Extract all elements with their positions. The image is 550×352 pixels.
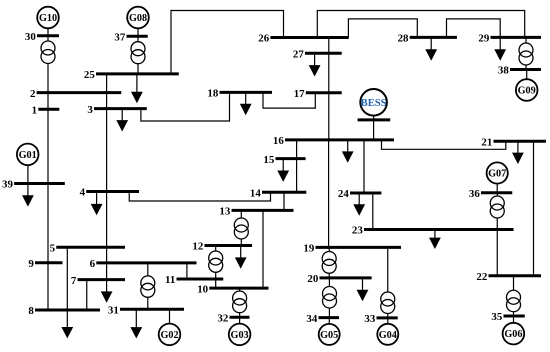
svg-text:10: 10 xyxy=(197,283,208,295)
svg-text:G09: G09 xyxy=(518,86,536,97)
svg-text:34: 34 xyxy=(306,313,317,325)
svg-text:25: 25 xyxy=(84,69,95,81)
svg-text:19: 19 xyxy=(303,243,314,255)
svg-text:18: 18 xyxy=(207,88,218,100)
svg-text:26: 26 xyxy=(258,33,269,45)
svg-text:17: 17 xyxy=(294,88,305,100)
svg-text:G05: G05 xyxy=(320,330,338,341)
svg-text:9: 9 xyxy=(28,258,34,270)
svg-text:G02: G02 xyxy=(160,330,178,341)
svg-text:27: 27 xyxy=(293,48,304,60)
svg-text:5: 5 xyxy=(50,243,56,255)
svg-text:4: 4 xyxy=(80,187,86,199)
svg-text:16: 16 xyxy=(273,135,284,147)
svg-text:20: 20 xyxy=(307,273,318,285)
svg-text:BESS: BESS xyxy=(361,98,387,109)
svg-text:15: 15 xyxy=(263,154,274,166)
svg-text:G07: G07 xyxy=(488,169,506,180)
svg-text:30: 30 xyxy=(25,31,36,43)
svg-text:28: 28 xyxy=(398,33,409,45)
svg-text:2: 2 xyxy=(30,88,35,100)
svg-text:36: 36 xyxy=(469,188,480,200)
svg-text:32: 32 xyxy=(217,312,228,324)
svg-text:G08: G08 xyxy=(129,13,147,24)
svg-text:22: 22 xyxy=(476,271,487,283)
svg-text:29: 29 xyxy=(478,33,489,45)
svg-text:1: 1 xyxy=(32,105,37,117)
svg-text:37: 37 xyxy=(114,31,125,43)
svg-text:21: 21 xyxy=(481,136,492,148)
svg-text:11: 11 xyxy=(165,274,175,286)
svg-text:13: 13 xyxy=(219,206,230,218)
svg-text:G01: G01 xyxy=(19,150,37,161)
svg-text:24: 24 xyxy=(338,188,349,200)
svg-text:14: 14 xyxy=(250,187,261,199)
svg-text:12: 12 xyxy=(192,241,203,253)
svg-text:7: 7 xyxy=(71,275,77,287)
svg-text:8: 8 xyxy=(28,305,34,317)
svg-text:G06: G06 xyxy=(504,329,522,340)
svg-text:3: 3 xyxy=(87,104,93,116)
svg-text:39: 39 xyxy=(2,179,13,191)
svg-text:38: 38 xyxy=(498,65,509,77)
svg-text:33: 33 xyxy=(364,313,375,325)
svg-text:35: 35 xyxy=(491,311,502,323)
svg-text:G03: G03 xyxy=(231,330,249,341)
svg-text:G10: G10 xyxy=(39,13,57,24)
svg-text:G04: G04 xyxy=(379,330,397,341)
svg-text:23: 23 xyxy=(352,225,363,237)
svg-text:31: 31 xyxy=(108,305,119,317)
svg-text:6: 6 xyxy=(90,258,96,270)
